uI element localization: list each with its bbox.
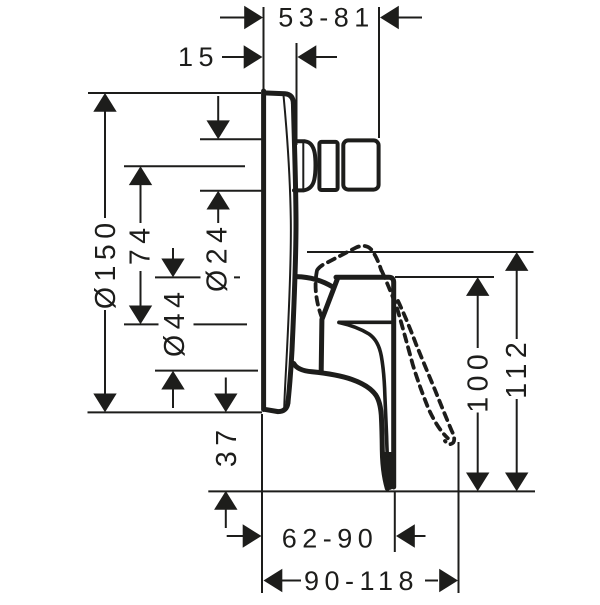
svg-text:Ø44: Ø44 xyxy=(159,287,191,357)
dim 100 bottom arrow xyxy=(466,473,489,492)
dim O150 line bottom stem xyxy=(104,310,106,396)
svg-text:Ø24: Ø24 xyxy=(202,222,234,292)
dim 90-118 left arrow pointing left xyxy=(264,569,283,592)
dim 90-118 right tail xyxy=(425,580,438,582)
ref line spindle top (O24) xyxy=(200,138,262,140)
svg-text:15: 15 xyxy=(178,42,219,72)
handle rosette top curve xyxy=(297,277,333,287)
svg-text:Ø150: Ø150 xyxy=(90,217,122,309)
dim 53-81 left arrow xyxy=(244,6,263,29)
dim O44 bottom arrow pointing up xyxy=(161,371,184,390)
dim 15 tail xyxy=(222,56,245,58)
dim O24 bottom stem xyxy=(217,209,219,223)
ref line handle tip bottom xyxy=(208,490,535,492)
dashed raised lever inner sweep xyxy=(398,301,454,444)
dim 112 top stem xyxy=(516,269,518,339)
dim 53-81 right arrow xyxy=(380,6,399,29)
dim 62-90 left arrow pointing right xyxy=(243,524,262,547)
extension line wall/back vertical top xyxy=(263,7,265,91)
dim 74 top arrow xyxy=(129,166,152,185)
extension line nut front (53-81) xyxy=(378,7,380,138)
valve connection nut xyxy=(343,140,378,189)
escutcheon plate inner face line xyxy=(284,95,291,409)
dim 15 right-point arrow xyxy=(244,45,263,68)
extension line plate front (15) xyxy=(296,43,298,145)
handle lever top and right edge xyxy=(336,277,394,487)
handle lever left slant and rosette left edge xyxy=(321,278,338,371)
ref line spindle bottom (O24) xyxy=(200,190,262,192)
dim 90-118 left tail xyxy=(281,580,301,582)
dim 74 top stem xyxy=(140,184,142,223)
ref line top of plate xyxy=(88,92,261,94)
dim O44 top arrow pointing down xyxy=(161,259,184,278)
dim 37 bottom stem xyxy=(225,509,227,528)
extension line wall bottom vertical xyxy=(261,414,263,593)
dim O44 top stem xyxy=(172,248,174,261)
dim 112 bottom arrow xyxy=(505,473,528,492)
dim O24 bottom arrow pointing up xyxy=(207,191,230,210)
dashed raised lever left edge xyxy=(316,272,322,318)
dim 112 top arrow xyxy=(505,252,528,271)
extension line raised lever tip vertical xyxy=(458,442,460,593)
ref line 112 top (raised handle) xyxy=(307,251,534,253)
dim 74 bottom arrow xyxy=(129,306,152,325)
handle tip fill xyxy=(382,452,394,490)
dim 62-90 right arrow pointing left xyxy=(396,524,415,547)
ref line rosette bottom (O44) xyxy=(155,370,258,372)
svg-text:112: 112 xyxy=(501,337,533,399)
dim 90-118 right arrow pointing right xyxy=(439,569,458,592)
valve collar ring xyxy=(319,142,337,190)
escutcheon plate outline xyxy=(264,91,294,412)
handle inner grip curve xyxy=(339,323,387,456)
svg-text:62-90: 62-90 xyxy=(282,524,379,554)
dim 112 bottom stem xyxy=(516,399,518,474)
dim 100 bottom stem xyxy=(477,413,479,475)
dim 53-81 left tail xyxy=(220,17,246,19)
svg-text:90-118: 90-118 xyxy=(304,566,419,596)
dim 100 top arrow xyxy=(466,277,489,296)
dim 37 top arrow pointing down xyxy=(214,394,237,413)
svg-text:37: 37 xyxy=(211,424,243,467)
handle bottom sweep curve xyxy=(294,364,388,489)
svg-text:100: 100 xyxy=(462,349,494,413)
dashed raised lever top edge xyxy=(317,246,381,271)
valve spindle dome xyxy=(294,141,316,190)
dim O44 bottom stem xyxy=(172,389,174,408)
svg-text:74: 74 xyxy=(125,222,157,265)
ref line spindle centre 74 top xyxy=(124,165,245,167)
dim 62-90 left tail xyxy=(227,535,243,537)
dim 15 left-point tail xyxy=(315,56,337,58)
handle inner horizontal line xyxy=(339,320,393,324)
ref line 100 top (handle top) xyxy=(395,276,494,278)
dim 74 bottom stem xyxy=(140,271,142,307)
dim 37 bottom arrow pointing up xyxy=(214,491,237,510)
dim O150 bottom arrow xyxy=(93,394,116,413)
svg-text:53-81: 53-81 xyxy=(278,2,375,32)
dashed raised lever outer sweep xyxy=(382,271,448,438)
ref line bottom of plate xyxy=(88,411,263,413)
ref line rosette top (O44) xyxy=(155,276,240,278)
escutcheon plate front face xyxy=(288,103,296,403)
dim 37 top stem xyxy=(225,378,227,396)
dim O150 top arrow xyxy=(93,93,116,112)
ref line 74 bottom xyxy=(124,323,247,325)
dim 53-81 right tail xyxy=(397,17,422,19)
extension line handle tip vertical xyxy=(394,491,396,552)
dim O24 top arrow pointing down xyxy=(207,120,230,139)
dim 100 top stem xyxy=(477,294,479,348)
dim 62-90 right tail xyxy=(414,535,426,537)
dim O24 top stem xyxy=(217,96,219,122)
dim 15 left-point arrow xyxy=(298,45,317,68)
dim O150 line top stem xyxy=(104,110,106,218)
valve spindle dome inner line xyxy=(302,142,304,190)
